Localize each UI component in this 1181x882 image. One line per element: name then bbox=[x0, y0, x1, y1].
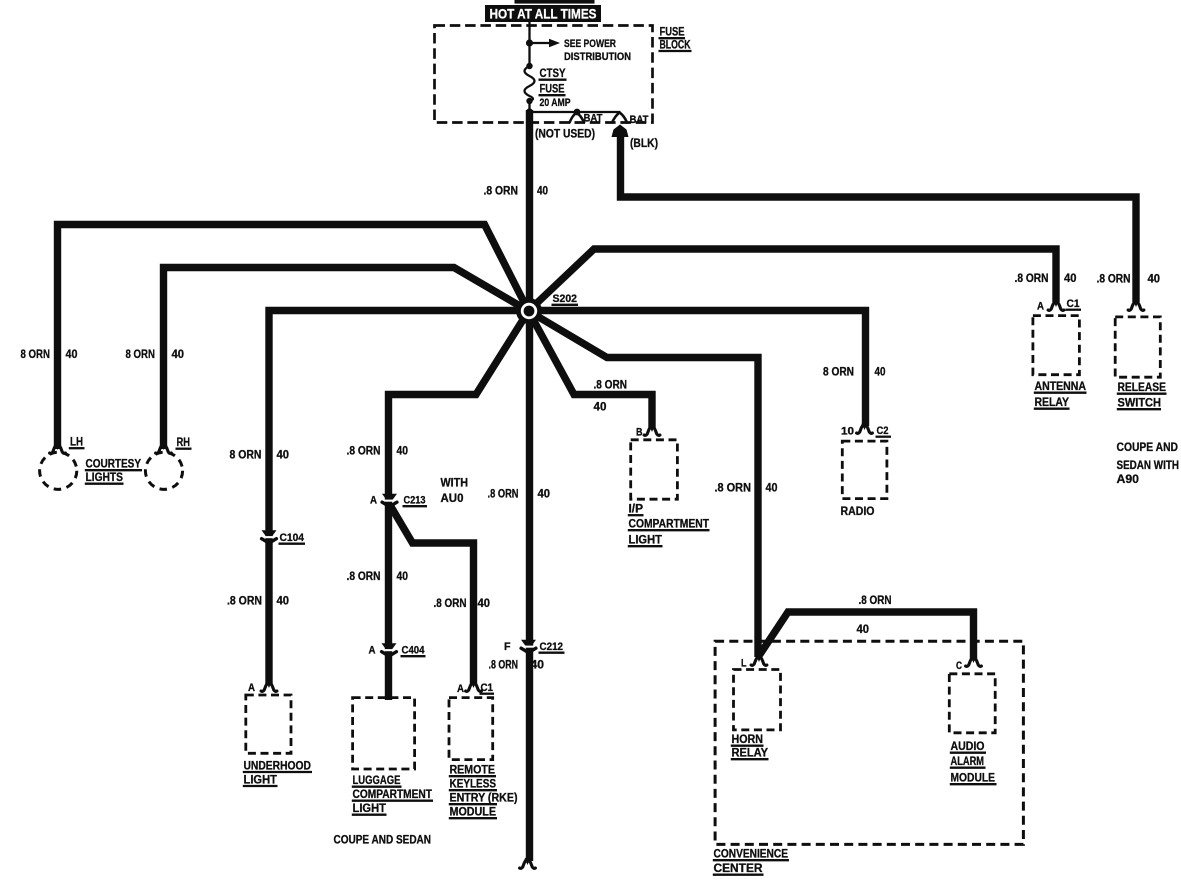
svg-text:.8 ORN: .8 ORN bbox=[1015, 271, 1049, 285]
I/P compartment light dashed box bbox=[631, 440, 678, 499]
svg-text:BAT: BAT bbox=[630, 114, 649, 126]
wire splice to horn relay bbox=[529, 311, 759, 657]
release switch dashed box bbox=[1115, 317, 1160, 377]
fuse block dashed box bbox=[435, 26, 653, 123]
wire main vertical .8 ORN 40 from fuse to bottom bbox=[526, 110, 533, 861]
svg-text:A90: A90 bbox=[1117, 472, 1140, 486]
svg-text:40: 40 bbox=[594, 400, 607, 414]
wire splice to underhood light bbox=[269, 311, 529, 685]
connector claw pin L horn relay bbox=[751, 656, 767, 665]
svg-text:BLOCK: BLOCK bbox=[660, 37, 691, 51]
svg-text:C2: C2 bbox=[877, 425, 889, 437]
svg-text:CENTER: CENTER bbox=[714, 861, 763, 875]
junction node at top of fuse block bbox=[526, 39, 533, 46]
svg-text:F: F bbox=[504, 641, 511, 653]
audio alarm module dashed box bbox=[949, 674, 995, 733]
svg-text:DISTRIBUTION: DISTRIBUTION bbox=[564, 51, 631, 63]
luggage compartment light dashed box bbox=[353, 698, 415, 769]
svg-text:ANTENNA: ANTENNA bbox=[1035, 379, 1087, 393]
svg-text:B: B bbox=[636, 427, 643, 439]
svg-text:RELEASE: RELEASE bbox=[1118, 380, 1167, 394]
svg-text:.8 ORN: .8 ORN bbox=[1097, 272, 1131, 286]
connector claw pin B I/P compartment light bbox=[644, 426, 660, 435]
svg-text:LIGHT: LIGHT bbox=[629, 533, 663, 547]
svg-text:40: 40 bbox=[531, 658, 545, 672]
svg-text:AU0: AU0 bbox=[441, 491, 464, 505]
arrow to SEE POWER DISTRIBUTION bbox=[530, 42, 550, 44]
svg-text:C104: C104 bbox=[280, 532, 305, 544]
connector C212 in main wire bbox=[521, 640, 536, 646]
svg-text:.8 ORN: .8 ORN bbox=[347, 444, 381, 458]
svg-text:WITH: WITH bbox=[441, 476, 469, 490]
wire splice to LH courtesy light bbox=[58, 225, 529, 450]
svg-text:CONVENIENCE: CONVENIENCE bbox=[714, 847, 789, 861]
svg-text:C1: C1 bbox=[481, 682, 494, 694]
svg-text:8 ORN: 8 ORN bbox=[823, 365, 854, 379]
svg-text:S202: S202 bbox=[553, 293, 578, 305]
svg-text:CTSY: CTSY bbox=[540, 66, 566, 80]
connector claw at LH courtesy light bbox=[50, 444, 66, 453]
svg-text:20 AMP: 20 AMP bbox=[540, 97, 571, 109]
connector claw pin C audio alarm module bbox=[966, 657, 982, 666]
svg-text:40: 40 bbox=[66, 347, 78, 361]
svg-text:C213: C213 bbox=[404, 495, 426, 507]
svg-text:I/P: I/P bbox=[629, 502, 644, 516]
wire splice to I/P compartment light bbox=[529, 311, 653, 428]
svg-text:A: A bbox=[248, 682, 255, 694]
svg-text:.8 ORN: .8 ORN bbox=[227, 594, 262, 608]
BAT terminal 1 (not used) bbox=[570, 113, 585, 123]
svg-text:COUPE AND SEDAN: COUPE AND SEDAN bbox=[334, 833, 432, 847]
svg-text:C1: C1 bbox=[1067, 298, 1081, 310]
RH courtesy light bulb bbox=[145, 452, 182, 489]
svg-text:ALARM: ALARM bbox=[951, 754, 985, 768]
radio dashed box bbox=[842, 441, 887, 499]
wire splice to luggage compartment light bbox=[389, 311, 529, 700]
fuse element CTSY FUSE 20 AMP bbox=[525, 66, 535, 101]
svg-text:40: 40 bbox=[277, 594, 290, 608]
svg-text:COMPARTMENT: COMPARTMENT bbox=[353, 787, 433, 801]
remote keyless entry module dashed box bbox=[449, 698, 493, 760]
svg-text:A: A bbox=[369, 645, 376, 657]
svg-text:40: 40 bbox=[397, 444, 409, 458]
connector claw pin A underhood light bbox=[261, 682, 277, 691]
horn relay dashed box bbox=[734, 670, 781, 730]
svg-text:REMOTE: REMOTE bbox=[450, 763, 496, 777]
svg-text:.8 ORN: .8 ORN bbox=[715, 481, 752, 495]
svg-text:40: 40 bbox=[397, 569, 409, 583]
svg-text:A: A bbox=[457, 683, 464, 695]
svg-text:MODULE: MODULE bbox=[951, 771, 996, 785]
svg-text:LIGHT: LIGHT bbox=[244, 772, 278, 786]
wire horn relay node to audio alarm module bbox=[760, 612, 974, 659]
HOT AT ALL TIMES banner bbox=[485, 5, 601, 22]
svg-text:.8 ORN: .8 ORN bbox=[859, 593, 892, 607]
svg-text:40: 40 bbox=[277, 448, 290, 462]
svg-text:LUGGAGE: LUGGAGE bbox=[353, 773, 401, 787]
svg-text:(NOT USED): (NOT USED) bbox=[535, 127, 595, 141]
svg-text:C: C bbox=[956, 660, 962, 672]
svg-text:40: 40 bbox=[537, 184, 548, 198]
wire C213 branch to RKE module bbox=[390, 505, 474, 684]
wire inside fuse block bbox=[528, 21, 530, 66]
junction node at fuse output bbox=[526, 108, 533, 115]
svg-text:40: 40 bbox=[478, 596, 491, 610]
wire BAT terminal to release switch bbox=[621, 136, 1137, 302]
svg-text:C404: C404 bbox=[402, 645, 426, 657]
svg-text:.8 ORN: .8 ORN bbox=[434, 596, 467, 610]
svg-text:40: 40 bbox=[857, 622, 870, 636]
svg-text:UNDERHOOD: UNDERHOOD bbox=[244, 758, 312, 772]
connector claw at RH courtesy light bbox=[156, 444, 172, 453]
svg-text:HOT AT ALL TIMES: HOT AT ALL TIMES bbox=[490, 6, 597, 22]
svg-text:HORN: HORN bbox=[732, 732, 764, 746]
svg-text:8 ORN: 8 ORN bbox=[126, 347, 156, 361]
svg-text:40: 40 bbox=[766, 481, 778, 495]
svg-text:8 ORN: 8 ORN bbox=[21, 347, 51, 361]
svg-text:L: L bbox=[741, 658, 747, 670]
LH courtesy light bulb bbox=[40, 452, 77, 489]
svg-text:C212: C212 bbox=[540, 641, 564, 653]
svg-text:RH: RH bbox=[177, 435, 191, 449]
svg-text:RADIO: RADIO bbox=[841, 504, 875, 518]
connector C404 in luggage branch bbox=[382, 643, 397, 649]
BAT terminal 2 bbox=[612, 113, 627, 123]
wire splice to antenna relay bbox=[529, 249, 1057, 311]
svg-text:ENTRY (RKE): ENTRY (RKE) bbox=[450, 791, 518, 805]
antenna relay dashed box bbox=[1033, 316, 1080, 375]
svg-text:40: 40 bbox=[1148, 272, 1161, 286]
svg-text:RELAY: RELAY bbox=[1035, 395, 1070, 409]
svg-text:A: A bbox=[370, 495, 377, 507]
connector claw release switch bbox=[1128, 301, 1144, 310]
underhood light dashed box bbox=[246, 695, 291, 753]
connector claw pin A C1 RKE module bbox=[466, 682, 482, 691]
svg-text:COMPARTMENT: COMPARTMENT bbox=[629, 517, 710, 531]
svg-text:.8 ORN: .8 ORN bbox=[488, 487, 519, 501]
svg-text:.8 ORN: .8 ORN bbox=[484, 184, 519, 198]
connector claw bottom of main wire bbox=[520, 859, 536, 868]
connector claw pin 10 C2 radio bbox=[857, 424, 873, 433]
svg-text:LH: LH bbox=[70, 435, 83, 449]
svg-text:40: 40 bbox=[538, 487, 551, 501]
connector claw pin A C1 antenna relay bbox=[1048, 301, 1064, 310]
svg-text:COUPE AND: COUPE AND bbox=[1117, 440, 1179, 454]
svg-text:LIGHTS: LIGHTS bbox=[86, 470, 124, 484]
svg-text:BAT: BAT bbox=[584, 113, 603, 125]
svg-text:COURTESY: COURTESY bbox=[86, 457, 142, 471]
wire splice to radio bbox=[529, 311, 866, 427]
wire splice to RH courtesy light bbox=[164, 268, 529, 450]
connector C104 in underhood branch bbox=[262, 530, 277, 536]
male connector plug (BLK) bbox=[612, 125, 629, 138]
svg-text:.8 ORN: .8 ORN bbox=[489, 658, 519, 672]
convenience center dashed box bbox=[715, 641, 1023, 844]
junction node BAT tap bbox=[574, 109, 581, 116]
splice S202 bbox=[516, 298, 542, 324]
svg-text:.8 ORN: .8 ORN bbox=[347, 569, 381, 583]
svg-text:A: A bbox=[1037, 301, 1044, 313]
svg-text:LIGHT: LIGHT bbox=[353, 801, 387, 815]
svg-text:10: 10 bbox=[841, 426, 854, 438]
svg-text:AUDIO: AUDIO bbox=[951, 739, 985, 753]
black strip top edge bbox=[515, 0, 595, 4]
svg-text:MODULE: MODULE bbox=[450, 805, 497, 819]
svg-text:40: 40 bbox=[1064, 271, 1077, 285]
svg-text:8 ORN: 8 ORN bbox=[230, 448, 262, 462]
svg-text:40: 40 bbox=[875, 365, 886, 379]
svg-text:RELAY: RELAY bbox=[732, 746, 769, 760]
svg-text:KEYLESS: KEYLESS bbox=[450, 777, 497, 791]
svg-text:.8 ORN: .8 ORN bbox=[594, 378, 628, 392]
svg-text:SWITCH: SWITCH bbox=[1118, 396, 1162, 410]
svg-text:FUSE: FUSE bbox=[540, 82, 565, 96]
connector C213 in luggage branch bbox=[382, 494, 397, 500]
svg-text:40: 40 bbox=[172, 347, 185, 361]
svg-text:SEE POWER: SEE POWER bbox=[564, 38, 616, 50]
svg-text:SEDAN WITH: SEDAN WITH bbox=[1117, 458, 1180, 472]
svg-text:(BLK): (BLK) bbox=[630, 136, 658, 150]
